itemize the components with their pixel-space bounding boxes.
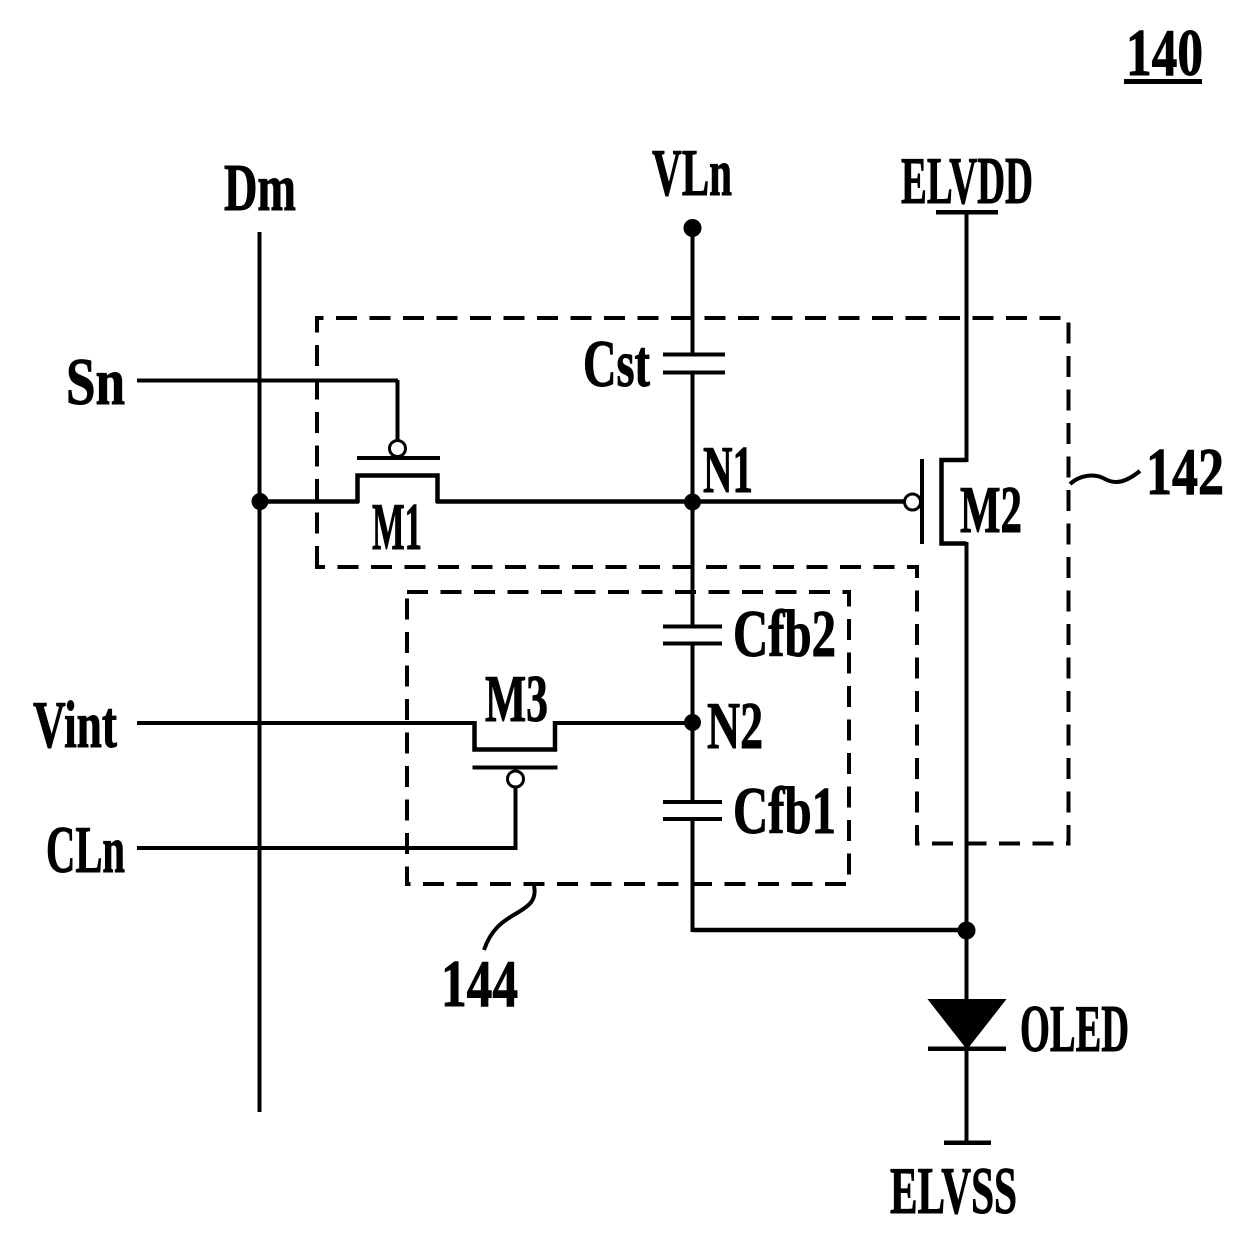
dashed box 144 [407,592,849,884]
node N2 dot [684,714,701,731]
wire Sn to M1 gate [396,380,400,440]
svg-text:ELVSS: ELVSS [890,1154,1017,1228]
wire M1 drain to M2 gate [436,499,905,504]
capacitor Cfb2 [663,625,722,646]
wire scan line Sn [137,379,398,383]
svg-text:142: 142 [1146,435,1224,509]
svg-text:CLn: CLn [46,813,125,887]
svg-text:M1: M1 [372,490,422,564]
svg-text:Sn: Sn [66,345,125,419]
wire M3 drain to N2 [553,721,693,725]
leader squiggle 144 [484,886,535,950]
wire control line CLn [137,846,518,850]
leader squiggle 142 [1070,471,1140,484]
svg-text:Cst: Cst [583,327,650,401]
ELVSS terminal bar [944,1141,991,1146]
svg-text:M3: M3 [485,662,548,736]
svg-text:N1: N1 [703,433,753,507]
wire ELVDD vertical [965,214,969,462]
label 140 (figure reference) [1124,16,1203,90]
diode OLED [928,1000,1006,1051]
node N1 dot [684,494,701,511]
svg-text:144: 144 [441,947,518,1021]
svg-text:Dm: Dm [224,151,296,225]
wire Dm to M1 source [260,499,360,504]
svg-text:Cfb1: Cfb1 [733,774,836,848]
wire Vint line to M3 [137,721,476,725]
transistor M3 [473,721,558,848]
node VLn terminal dot [684,219,702,237]
svg-text:Vint: Vint [33,688,117,762]
capacitor Cst [663,353,725,375]
svg-text:OLED: OLED [1020,992,1129,1066]
wire VLn vertical [691,228,695,353]
ELVDD terminal bar [936,210,998,215]
junction dot bottom [958,922,976,940]
wire center vertical Cst to Cfb2 [691,372,695,626]
wire center vertical Cfb1 to bottom [691,819,695,932]
wire bottom horizontal [693,928,967,933]
wire OLED to ELVSS [965,1050,969,1143]
junction dot Dm [252,493,269,510]
wire center vertical Cfb2 to Cfb1 [691,644,695,801]
svg-text:Cfb2: Cfb2 [733,597,836,671]
svg-text:M2: M2 [960,473,1022,547]
transistor M1 [357,441,440,504]
transistor M2 [905,459,967,544]
capacitor Cfb1 [663,800,722,821]
svg-text:N2: N2 [707,689,763,763]
wire M2 drain vertical [965,542,969,1003]
svg-text:140: 140 [1126,16,1203,90]
svg-text:ELVDD: ELVDD [901,144,1033,218]
wire data line Dm [258,232,262,1112]
svg-text:VLn: VLn [652,136,732,210]
dashed box 142 [317,318,1069,844]
